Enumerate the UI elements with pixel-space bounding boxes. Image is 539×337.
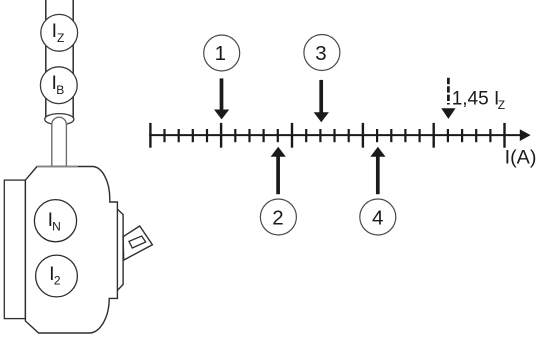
pin conductor bbox=[52, 117, 67, 166]
svg-text:2: 2 bbox=[272, 206, 283, 229]
node IN circle bbox=[34, 200, 76, 242]
label IZ bbox=[52, 20, 65, 45]
toggle lever bbox=[123, 226, 152, 260]
marker circle 2 bbox=[260, 199, 296, 235]
marker circle 4 bbox=[360, 199, 396, 235]
svg-text:1: 1 bbox=[215, 42, 226, 65]
arrow 4 up bbox=[370, 147, 385, 194]
wire cable left conductor bbox=[45, 0, 47, 119]
label I2 bbox=[49, 263, 61, 288]
axis tall ticks bbox=[150, 123, 504, 148]
label 1,45 IZ bbox=[452, 89, 505, 113]
breaker DIN rail plate bbox=[4, 180, 25, 319]
breaker body outline bbox=[25, 167, 117, 334]
dashed arrow 1.45 IZ bbox=[441, 78, 455, 119]
svg-text:4: 4 bbox=[372, 206, 383, 229]
marker circle 3 bbox=[304, 35, 340, 71]
label IN bbox=[48, 209, 61, 234]
arrow 2 up bbox=[271, 147, 286, 194]
svg-text:2: 2 bbox=[54, 274, 61, 288]
svg-text:3: 3 bbox=[315, 42, 326, 65]
axis arrowhead bbox=[520, 129, 531, 141]
svg-text:B: B bbox=[56, 83, 64, 97]
breaker top edge gray segment bbox=[37, 166, 78, 168]
arrow 3 down bbox=[314, 80, 329, 122]
svg-text:1,45 I: 1,45 I bbox=[452, 89, 500, 110]
node IB circle bbox=[40, 67, 77, 104]
arrow 1 down bbox=[214, 78, 229, 119]
node IZ circle bbox=[41, 14, 78, 51]
node I2 circle bbox=[36, 255, 78, 297]
breaker side protrusion bbox=[117, 209, 123, 290]
axis line I(A) bbox=[149, 134, 522, 136]
svg-text:Z: Z bbox=[498, 98, 505, 112]
cable lug ellipse bbox=[45, 114, 74, 125]
svg-text:N: N bbox=[52, 220, 61, 234]
svg-text:I(A): I(A) bbox=[505, 146, 537, 168]
wire cable right conductor bbox=[72, 0, 74, 119]
svg-text:Z: Z bbox=[57, 31, 64, 45]
marker circle 1 bbox=[204, 35, 240, 71]
axis small ticks bbox=[165, 129, 491, 142]
label IB bbox=[52, 72, 65, 97]
